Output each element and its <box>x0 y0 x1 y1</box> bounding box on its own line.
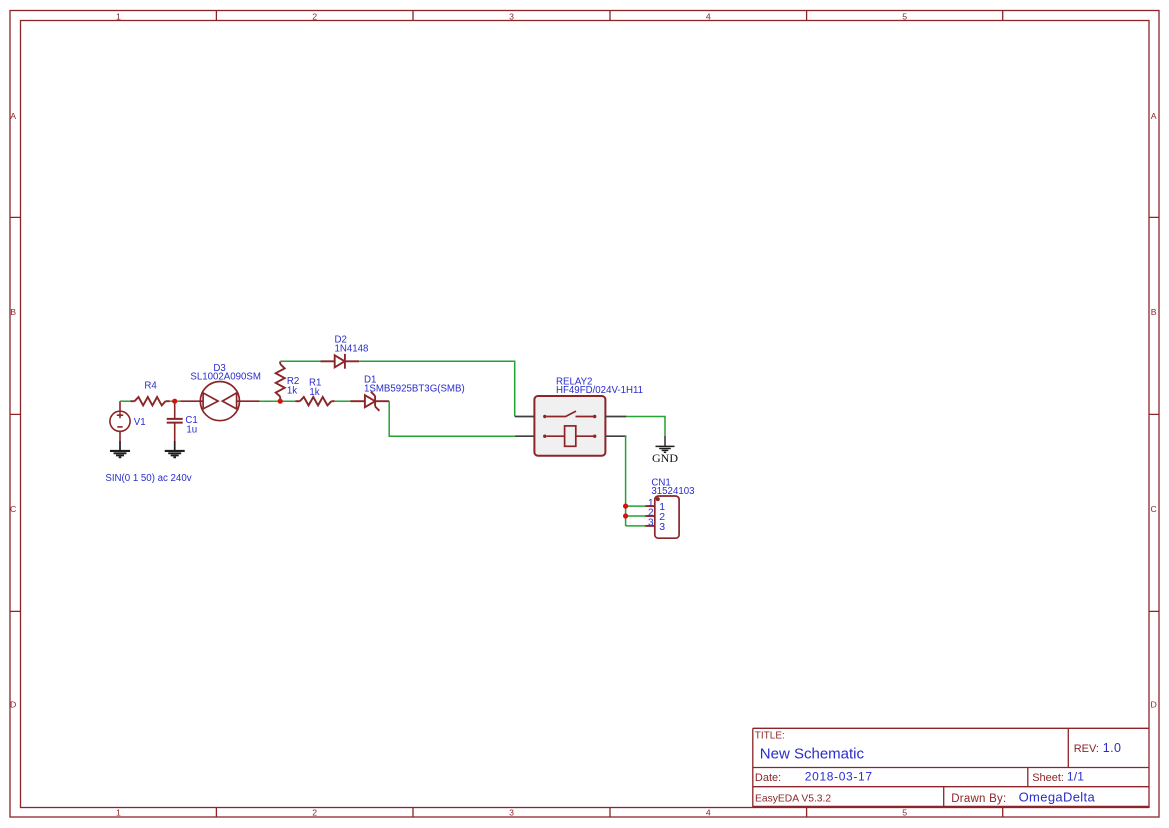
svg-text:1: 1 <box>116 808 121 818</box>
wire relay pin2 to CN1 <box>625 436 628 526</box>
wire junction to D3 <box>170 400 181 402</box>
triac D3 SL1002A090SM <box>180 382 259 421</box>
svg-text:A: A <box>1151 111 1157 121</box>
spice text SIN(0 1 50) ac 240v <box>105 473 191 484</box>
wire R1 to D1 <box>335 400 351 402</box>
svg-text:C: C <box>1151 504 1157 514</box>
svg-text:2: 2 <box>312 11 317 21</box>
svg-text:Date:: Date: <box>755 772 781 784</box>
svg-text:1/1: 1/1 <box>1067 769 1084 783</box>
svg-text:REV:: REV: <box>1074 743 1099 755</box>
svg-text:Sheet:: Sheet: <box>1032 772 1064 784</box>
svg-text:D: D <box>10 699 16 709</box>
diode D2 1N4148 <box>321 354 360 369</box>
svg-text:1k: 1k <box>287 386 297 397</box>
svg-text:TITLE:: TITLE: <box>755 731 785 742</box>
svg-text:GND: GND <box>652 451 678 465</box>
junction node CN1 pin1 <box>623 504 628 509</box>
wire to CN1 pin 2 <box>626 515 646 517</box>
svg-text:1: 1 <box>116 11 121 21</box>
wire D3 to junction <box>260 400 296 402</box>
capacitor C1 <box>167 401 183 441</box>
svg-text:EasyEDA V5.3.2: EasyEDA V5.3.2 <box>755 793 831 804</box>
svg-text:V1: V1 <box>134 417 146 428</box>
svg-text:HF49FD/024V-1H11: HF49FD/024V-1H11 <box>556 385 643 396</box>
resistor R2 <box>276 361 285 401</box>
svg-text:SL1002A090SM: SL1002A090SM <box>190 372 261 383</box>
svg-text:R4: R4 <box>144 381 157 392</box>
ground GND net <box>652 436 678 465</box>
junction node CN1 pin2 <box>623 513 628 518</box>
svg-text:2: 2 <box>312 808 317 818</box>
svg-text:A: A <box>10 111 16 121</box>
svg-text:1.0: 1.0 <box>1103 741 1122 755</box>
resistor R1 <box>295 397 335 405</box>
wire D2 to relay corner <box>359 361 515 416</box>
svg-text:Drawn By:: Drawn By: <box>951 793 1006 805</box>
wire R2 top to D2 <box>280 360 320 362</box>
svg-text:3: 3 <box>509 11 514 21</box>
svg-text:C: C <box>10 504 16 514</box>
wire V1 to R4 <box>120 400 131 402</box>
connector CN1 31524103 <box>645 478 694 539</box>
wire to CN1 pin 1 <box>626 505 646 507</box>
svg-text:SIN(0 1 50) ac 240v: SIN(0 1 50) ac 240v <box>105 473 191 484</box>
svg-text:3: 3 <box>509 808 514 818</box>
svg-text:31524103: 31524103 <box>651 486 694 497</box>
svg-text:B: B <box>10 307 16 317</box>
wire to CN1 pin 3 <box>626 525 646 527</box>
svg-text:1k: 1k <box>309 387 319 398</box>
svg-text:3: 3 <box>659 521 665 533</box>
svg-text:2018-03-17: 2018-03-17 <box>805 769 873 783</box>
relay RELAY2 HF49FD/024V-1H11 <box>515 377 643 456</box>
svg-text:B: B <box>1151 307 1157 317</box>
ground (C1) <box>165 441 185 457</box>
zener diode D1 1SMB5925BT3G <box>350 392 389 411</box>
wire relay pin1 to GND <box>626 417 665 437</box>
svg-text:5: 5 <box>902 11 907 21</box>
junction node R2 bottom <box>278 399 283 404</box>
junction node R4/C1 <box>172 399 177 404</box>
svg-text:1SMB5925BT3G(SMB): 1SMB5925BT3G(SMB) <box>364 384 465 395</box>
svg-text:4: 4 <box>706 808 711 818</box>
svg-text:D: D <box>1151 699 1157 709</box>
svg-text:OmegaDelta: OmegaDelta <box>1019 789 1096 804</box>
ground (V1) <box>110 441 130 457</box>
svg-text:4: 4 <box>706 11 711 21</box>
svg-text:1u: 1u <box>186 425 197 436</box>
title block <box>753 728 1149 807</box>
svg-text:3: 3 <box>648 518 654 529</box>
resistor R4 <box>131 397 170 405</box>
svg-text:New Schematic: New Schematic <box>760 745 865 762</box>
svg-text:1N4148: 1N4148 <box>335 344 369 355</box>
voltage source V1 <box>110 401 130 441</box>
svg-text:5: 5 <box>902 808 907 818</box>
wire D1 to relay pin 2 <box>389 401 515 436</box>
